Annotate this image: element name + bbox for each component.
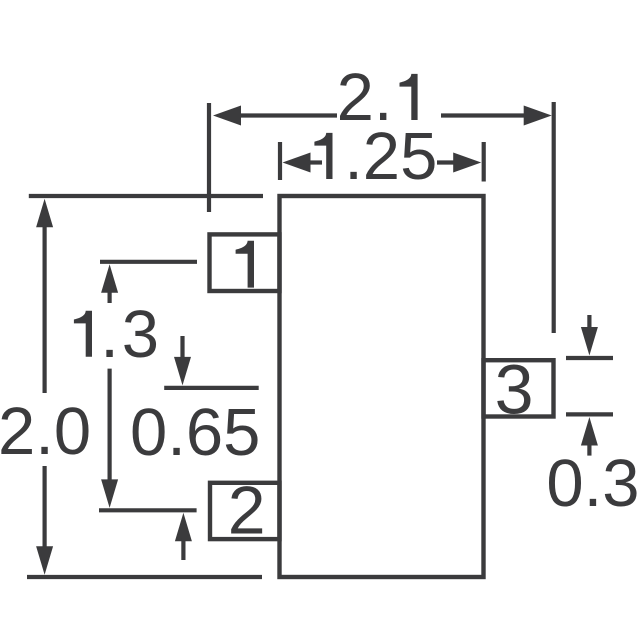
- dimension 2.1 extension line right: [552, 102, 556, 333]
- dimension 2.0 arrow down: [36, 546, 53, 575]
- svg-text:0.65: 0.65: [130, 395, 260, 470]
- dimension 0.3 line top (pin 3 top): [566, 356, 613, 360]
- pin 3: [484, 360, 554, 416]
- dimension 2.1 arrow left: [213, 106, 241, 126]
- dimension 2.0 line upper segment: [42, 224, 46, 393]
- svg-text:.25: .25: [344, 119, 437, 194]
- dimension 2.1 extension line left: [207, 103, 211, 212]
- dimension 1.3 extension line bottom (pin 2 center): [99, 508, 197, 512]
- dimension 1.3 line lower segment: [107, 369, 111, 481]
- dimension 0.3 arrow down: [581, 327, 598, 356]
- dimension 0.3 arrow up stem: [587, 442, 591, 456]
- label 1.3: [74, 311, 92, 357]
- dimension 1.3 arrow down: [101, 479, 118, 508]
- pin 2: [210, 483, 280, 539]
- label 1.25: [314, 133, 332, 179]
- dimension 2.1 line right segment: [441, 113, 527, 117]
- dimension 2.0 extension line top: [29, 194, 263, 198]
- dimension 1.25 tick left: [278, 142, 282, 180]
- dimension 2.1 line left segment: [238, 113, 337, 117]
- dimension 1.25 arrow right tail: [437, 160, 455, 164]
- dimension 2.1 arrow right: [524, 106, 552, 126]
- dimension 0.65 extension line (pin 3 center): [164, 386, 259, 390]
- dimension 0.65 arrow down (above pin 3 center line): [174, 357, 191, 386]
- dimension 1.3 arrow up: [101, 264, 118, 293]
- dimension 1.25 arrow left: [283, 153, 311, 173]
- pin 1: [210, 234, 280, 291]
- pin 1 label: [236, 241, 254, 288]
- dimension 0.3 line bottom (pin 3 bottom): [566, 412, 613, 416]
- dimension 2.0 extension line bottom: [27, 575, 262, 579]
- svg-text:3: 3: [495, 350, 534, 428]
- svg-text:0.3: 0.3: [546, 446, 639, 521]
- dimension 0.65 arrow up (below pin 2 center line): [175, 513, 192, 542]
- svg-text:2.0: 2.0: [0, 394, 91, 469]
- dimension 2.0 line lower segment: [42, 466, 46, 549]
- dimension 1.3 extension line top (pin 1 center): [100, 260, 197, 264]
- dimension 1.25 tick right: [482, 142, 486, 182]
- dimension 0.3 arrow down stem: [587, 315, 591, 330]
- dimension 1.25 arrow left tail: [308, 160, 322, 164]
- dimension 1.3 line upper segment: [107, 289, 111, 303]
- dimension 2.0 arrow up: [36, 199, 53, 228]
- dimension 0.65 arrow up stem: [181, 538, 185, 560]
- package body: [280, 196, 484, 577]
- dimension 0.3 arrow up: [581, 417, 598, 446]
- svg-text:.3: .3: [100, 297, 162, 372]
- svg-text:2: 2: [228, 473, 266, 549]
- dimension 0.65 arrow down stem: [180, 336, 184, 360]
- dimension 1.25 arrow right: [453, 153, 481, 173]
